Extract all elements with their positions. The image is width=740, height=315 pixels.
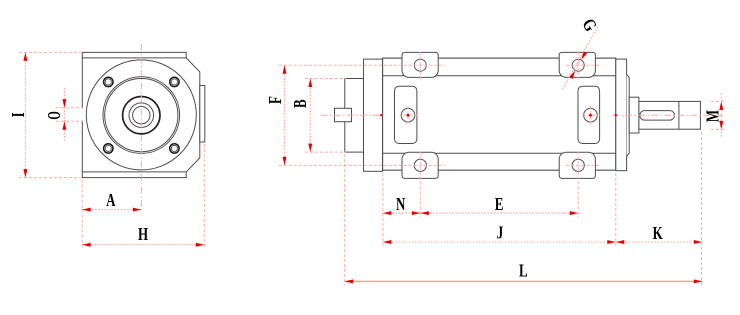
svg-text:K: K [653,224,664,244]
gearbox body outline [82,52,200,177]
arrow J right [607,240,616,244]
arrow J left [383,240,392,244]
centerline dot at body left edge [380,114,382,116]
bottom lug 1 [402,152,438,178]
svg-text:O: O [46,111,65,119]
arrow B down [308,144,312,153]
flange plate [364,59,383,171]
hub block [345,79,364,153]
svg-text:J: J [497,223,504,243]
shaft bore circle [133,107,150,124]
arrow N left [383,211,392,215]
slot 1 hole [401,108,415,122]
slot2 center dot [589,114,592,117]
dim line E [420,212,578,214]
output shaft [639,101,701,129]
ext line N-E lug1 vertical [419,152,421,218]
ext line L left vertical [344,154,346,286]
dim line A [82,209,141,211]
ext line K-L shaft end vertical [701,132,703,286]
ext line O top [56,107,84,109]
dim line J [383,241,616,243]
shaft collar circle [129,103,154,128]
bottom lug 2 [559,152,595,178]
hub face ring outer [103,77,180,154]
slot2 hole v centerline [590,106,592,124]
bolt hole bottom-left [104,144,113,153]
dim line K [616,241,703,243]
slot1 hole h centerline [400,114,418,116]
keyway slot [640,111,675,121]
shaft collar [629,97,639,133]
side view centerline right segment [613,114,724,116]
bearing cap disc [627,74,630,156]
dim line N [383,212,420,214]
ext line F top / lug1 hole centerline [279,64,445,66]
dim line B [309,79,311,153]
lug2 hole centerline bottom [566,164,601,166]
slot 2 hole [584,108,598,122]
slot1 center dot [407,114,410,117]
top lug 1 [402,52,438,77]
arrow F down [283,157,287,166]
dim line F [284,65,286,165]
arrow H left [82,243,91,247]
top lug hole 1 [414,59,426,71]
shaft section line [678,101,680,129]
ext line I bottom [19,177,81,179]
front view vertical centerline [140,44,142,213]
ext line B bottom [305,151,346,153]
ext line B top [305,78,346,80]
svg-text:E: E [495,195,504,215]
bottom rim line [82,171,186,173]
end plate [616,59,627,171]
arrow G upper [581,51,587,59]
arrow M down [719,121,723,129]
arrow K left [616,240,625,244]
ext line O bottom [56,120,84,122]
arrow E left [420,211,429,215]
side view centerline left segment [321,114,384,116]
top lug 2 [559,52,595,77]
hub face ring inner [105,79,178,152]
arrow E right [570,211,579,215]
svg-text:N: N [396,195,406,215]
bottom lug hole 1 [414,159,426,171]
arrow A right [133,208,142,212]
top rim line [82,57,186,59]
svg-text:B: B [291,99,311,108]
bolt hole top-left [104,77,113,86]
arrow K right [694,240,703,244]
slot1 hole v centerline [407,106,409,124]
body inner top line [383,75,616,77]
arrow M up [719,101,723,110]
arrow L left [345,279,354,283]
svg-text:G: G [578,16,600,36]
input shaft stub [335,108,352,121]
svg-text:I: I [9,112,29,117]
ext line M bottom [711,128,727,130]
svg-text:H: H [138,225,148,245]
svg-text:F: F [266,96,286,104]
dim line M [720,94,722,138]
arrow N right [412,211,421,215]
arrow F up [283,65,287,74]
dim line H [82,244,204,246]
arrow G lower [569,71,575,79]
dim line L solid [345,280,703,282]
arrow O down [62,99,66,108]
arrow A left [82,208,91,212]
bottom lug hole 2 [572,159,584,171]
lug1 top hole vertical centerline [419,52,421,80]
bolt hole top-right [170,77,179,86]
ext line M top [711,100,727,102]
side tab [200,86,205,143]
lug2 top hole vertical centerline [577,52,579,80]
left edge notch gap [81,108,83,120]
bolt hole bottom-right [170,144,179,153]
slot 2 [578,86,600,143]
dim line O [63,88,65,141]
ext line H right [203,144,205,249]
svg-text:M: M [703,110,723,122]
ext line J-K body right vertical [615,173,617,247]
ext line N-J left vertical [382,173,384,247]
body rectangle [383,58,616,170]
body inner bottom line [383,152,616,154]
arrow I down [23,169,27,178]
arrow B up [308,79,312,88]
svg-text:A: A [106,191,116,211]
ext line E lug2 vertical [577,152,579,218]
lug2 hole centerline top [566,64,601,66]
slot 1 [395,86,417,143]
flange circle [86,60,196,170]
top lug hole 2 [572,59,584,71]
ext line A-H left [81,180,83,250]
input boss circle [123,97,160,134]
arrow I up [23,52,27,61]
arrow L right [694,279,703,283]
ext line F bottom / bottom lug centerline [279,164,445,166]
arrow O up [62,121,66,130]
dim line I [24,52,26,177]
centerline dot at body right edge [615,114,617,116]
arrow H right [196,243,205,247]
leader G [563,27,599,90]
svg-text:L: L [519,261,528,281]
ext line I top [19,51,81,53]
slot2 hole h centerline [582,114,600,116]
